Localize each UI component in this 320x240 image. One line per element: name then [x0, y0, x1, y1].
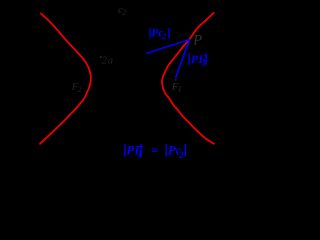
svg-text:2a: 2a [102, 56, 114, 67]
label |PF1| [188, 52, 206, 68]
hyperbola left branch [40, 14, 91, 144]
segment P-F1 (blue) [176, 40, 190, 79]
segment P-c2 (blue) [146, 40, 190, 54]
faint red tick near 2a [100, 56, 101, 58]
svg-text:2: 2 [178, 150, 184, 160]
svg-text:1: 1 [178, 84, 182, 93]
svg-text:2: 2 [122, 8, 126, 17]
svg-text:2: 2 [161, 32, 166, 41]
svg-text:P: P [192, 33, 202, 49]
focus F1 faint dot [175, 79, 177, 81]
hyperbola right branch [162, 13, 214, 144]
svg-text:2: 2 [78, 85, 82, 94]
equation |PF1| = |Pc2| [124, 143, 186, 160]
svg-text:=: = [151, 143, 158, 158]
label |Pc2| [149, 28, 169, 41]
